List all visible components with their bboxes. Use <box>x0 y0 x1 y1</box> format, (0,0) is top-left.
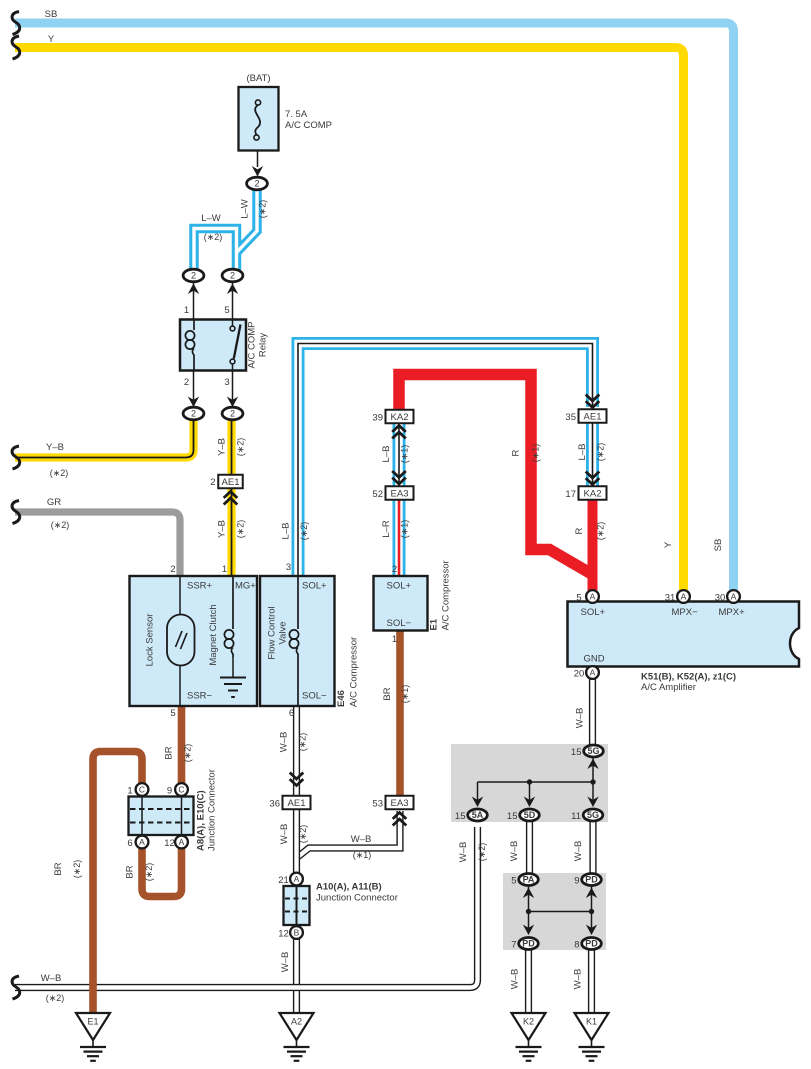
shield connector PA(5) <box>519 874 539 886</box>
svg-text:39: 39 <box>372 413 383 424</box>
svg-text:(∗2): (∗2) <box>236 520 246 539</box>
svg-text:K2: K2 <box>523 1017 534 1027</box>
svg-text:53: 53 <box>372 799 383 810</box>
svg-text:5: 5 <box>170 708 175 719</box>
junction pin B(12) <box>290 926 303 939</box>
svg-text:Y–B: Y–B <box>46 442 64 453</box>
svg-text:W–B: W–B <box>280 952 291 973</box>
svg-text:Junction Connector: Junction Connector <box>207 769 218 851</box>
svg-text:2: 2 <box>191 409 196 419</box>
svg-text:W–B: W–B <box>41 973 62 984</box>
svg-text:SOL−: SOL− <box>387 618 412 629</box>
connector KA2(39) <box>386 410 414 424</box>
svg-text:E1: E1 <box>429 618 440 630</box>
svg-text:Flow Control: Flow Control <box>267 606 278 659</box>
svg-text:5G: 5G <box>587 810 599 820</box>
break symbol Y-B <box>12 446 20 469</box>
shield connector PD(9) <box>582 874 602 886</box>
svg-text:L–W: L–W <box>201 213 221 224</box>
svg-text:(∗2): (∗2) <box>72 860 82 879</box>
svg-text:W–B: W–B <box>573 841 584 862</box>
wire from fuse to connector 2 <box>257 140 259 167</box>
svg-text:SOL+: SOL+ <box>581 607 606 618</box>
svg-text:5G: 5G <box>587 746 599 756</box>
svg-text:(∗2): (∗2) <box>298 733 308 752</box>
svg-text:52: 52 <box>372 489 383 500</box>
svg-text:1: 1 <box>392 634 397 645</box>
svg-text:A/C Compressor: A/C Compressor <box>441 560 452 630</box>
svg-text:15: 15 <box>571 747 582 758</box>
connector 2 relay pin3 <box>222 407 243 420</box>
svg-text:(∗1): (∗1) <box>400 685 410 704</box>
svg-text:W–B: W–B <box>458 842 469 863</box>
svg-text:(∗1): (∗1) <box>400 520 410 539</box>
svg-text:A8(A), E10(C): A8(A), E10(C) <box>196 790 207 851</box>
svg-text:6: 6 <box>127 838 132 849</box>
amplifier pin 31 MPX- <box>677 590 690 603</box>
svg-text:GR: GR <box>47 497 61 508</box>
svg-text:MPX−: MPX− <box>672 607 699 618</box>
svg-text:(∗2): (∗2) <box>236 438 246 457</box>
break symbol SB <box>12 12 20 35</box>
svg-text:PA: PA <box>523 875 535 885</box>
wire L-W branch to relay pin1 connector <box>0 0 1 1</box>
svg-text:K51(B), K52(A), z1(C): K51(B), K52(A), z1(C) <box>641 672 736 683</box>
connector 2 relay pin2 <box>183 407 204 420</box>
connector KA2(17) <box>579 486 607 500</box>
svg-text:AE1: AE1 <box>222 477 240 488</box>
svg-text:GND: GND <box>584 654 605 665</box>
svg-text:SOL+: SOL+ <box>387 581 412 592</box>
svg-text:A: A <box>179 837 185 847</box>
wire Y-B connector AE1 to MG+ pin1 <box>227 482 235 576</box>
svg-text:1: 1 <box>222 564 227 575</box>
wire Y-B from relay pin2 to left page break <box>15 419 194 458</box>
svg-text:17: 17 <box>565 489 576 500</box>
svg-text:(∗1): (∗1) <box>353 850 372 860</box>
svg-text:L–B: L–B <box>577 444 588 461</box>
svg-text:(∗1): (∗1) <box>531 444 541 463</box>
ground E1 <box>76 1013 110 1040</box>
svg-text:7: 7 <box>511 940 516 951</box>
wire Y (yellow) from page break to MPX- <box>15 48 684 591</box>
svg-text:15: 15 <box>455 811 466 822</box>
junction connector A8(A), E10(C) <box>129 797 194 836</box>
svg-text:PD: PD <box>585 939 598 949</box>
junction pin A(6) <box>136 836 149 849</box>
svg-text:A/C COMP: A/C COMP <box>247 322 258 369</box>
wire R thick from KA2(39) around to amplifier SOL+ <box>399 375 593 575</box>
wire BR from SSR- pin5 to junction connector C(9) <box>178 706 186 784</box>
connector 2 below fuse <box>247 177 268 190</box>
break symbol GR <box>12 501 20 524</box>
break symbol W-B <box>12 976 20 999</box>
junction pin A(21) <box>290 873 303 886</box>
amplifier pin 5 SOL+ <box>586 590 599 603</box>
svg-text:9: 9 <box>574 876 579 887</box>
svg-text:A: A <box>590 592 596 602</box>
connector 2 relay pin5 <box>222 269 243 282</box>
svg-text:W–B: W–B <box>279 732 290 753</box>
compressor assembly box Lock Sensor / Magnet Clutch <box>130 576 258 706</box>
wire W-B from 5D to PA <box>526 822 533 874</box>
svg-text:MPX+: MPX+ <box>719 607 746 618</box>
svg-text:KA2: KA2 <box>584 488 602 499</box>
junction connector A10(A), A11(B) <box>284 886 310 925</box>
svg-text:(∗2): (∗2) <box>298 825 308 844</box>
svg-text:(∗2): (∗2) <box>258 200 268 219</box>
shield connector 5G(11) <box>583 809 603 821</box>
svg-text:BR: BR <box>125 865 136 878</box>
svg-text:2: 2 <box>392 564 397 575</box>
svg-text:A/C COMP: A/C COMP <box>285 120 332 131</box>
svg-text:2: 2 <box>210 477 215 488</box>
svg-text:A: A <box>294 874 300 884</box>
svg-text:L–R: L–R <box>381 520 392 538</box>
svg-text:(∗2): (∗2) <box>299 522 309 541</box>
svg-text:9: 9 <box>167 786 172 797</box>
svg-text:7. 5A: 7. 5A <box>285 109 308 120</box>
wire L-B from KA2(39) to EA3(52) <box>393 417 406 489</box>
svg-text:2: 2 <box>230 409 235 419</box>
svg-text:2: 2 <box>230 271 235 281</box>
wire W-B from 5G(11) to PD(9) <box>589 822 596 874</box>
svg-text:C: C <box>178 785 184 795</box>
svg-text:A: A <box>681 592 687 602</box>
svg-text:(∗2): (∗2) <box>50 468 69 478</box>
wire R from KA2(17) to amplifier SOL+ <box>588 493 598 591</box>
magnet clutch coil <box>232 576 234 629</box>
connector 2 relay pin1 <box>183 269 204 282</box>
compressor solenoid box E1 <box>374 576 428 631</box>
wire BR from E1 compressor SOL- to EA3(53) <box>396 631 404 797</box>
wire W-B bottom horizontal from page break to shield 5A <box>15 827 478 988</box>
connector AE1(2) <box>218 475 243 489</box>
relay pin5 line <box>232 282 234 320</box>
svg-text:A/C Compressor: A/C Compressor <box>349 637 360 707</box>
amplifier pin 30 MPX+ <box>727 590 740 603</box>
svg-text:5: 5 <box>224 305 229 316</box>
svg-text:B: B <box>294 928 300 938</box>
shield link lines SG block <box>592 755 594 782</box>
svg-text:PD: PD <box>585 875 598 885</box>
wire Y-B relay pin3 to connector AE1 <box>227 419 235 475</box>
svg-text:(∗2): (∗2) <box>51 520 70 530</box>
svg-text:Magnet Clutch: Magnet Clutch <box>208 604 219 665</box>
junction pin A(12) <box>175 836 188 849</box>
svg-text:W–B: W–B <box>575 708 586 729</box>
svg-text:BR: BR <box>164 746 175 759</box>
svg-text:15: 15 <box>507 811 518 822</box>
svg-text:5A: 5A <box>472 810 484 820</box>
svg-text:Lock Sensor: Lock Sensor <box>145 614 156 667</box>
svg-text:Y–B: Y–B <box>217 520 228 538</box>
wire L-B pair from SOL+ pin3 up and right to connector AE1(35) <box>298 344 593 577</box>
wire W-B from SOL- pin6 down to ground A2 <box>293 706 300 1013</box>
svg-text:1: 1 <box>184 305 189 316</box>
svg-text:EA3: EA3 <box>391 488 409 499</box>
svg-text:PD: PD <box>522 939 535 949</box>
svg-text:2: 2 <box>191 271 196 281</box>
svg-text:A: A <box>590 668 596 678</box>
svg-text:W–B: W–B <box>279 824 290 845</box>
svg-text:BR: BR <box>53 862 64 875</box>
svg-text:W–B: W–B <box>509 841 520 862</box>
svg-text:5: 5 <box>511 876 516 887</box>
svg-text:Y: Y <box>48 34 55 45</box>
svg-text:(∗2): (∗2) <box>46 993 65 1003</box>
lock sensor symbol <box>167 615 195 666</box>
wire BR from junction connector C(1) to ground E1 <box>93 752 142 1014</box>
svg-text:3: 3 <box>286 562 291 573</box>
svg-text:A: A <box>731 592 737 602</box>
svg-text:Junction Connector: Junction Connector <box>316 893 398 904</box>
wire W-B from amplifier GND(20) to shield 5G <box>589 679 596 745</box>
svg-text:K1: K1 <box>586 1017 597 1027</box>
ground K2 <box>512 1013 546 1040</box>
svg-text:11: 11 <box>571 811 581 822</box>
svg-text:(∗2): (∗2) <box>144 863 154 882</box>
shield link lines PA/PD block <box>528 886 530 928</box>
svg-text:Relay: Relay <box>258 333 269 358</box>
wire L-B between AE1(35) and KA2(17) <box>586 416 599 489</box>
shield connector 5G(15) <box>584 745 604 757</box>
svg-text:(∗1): (∗1) <box>400 445 410 464</box>
svg-text:W–B: W–B <box>510 969 521 990</box>
svg-text:2: 2 <box>170 564 175 575</box>
lock sensor line <box>179 576 181 706</box>
wire GR from page break to SSR+ pin2 <box>15 512 180 576</box>
shield block SG/SA/SD (gray box) <box>451 744 608 822</box>
svg-text:E46: E46 <box>336 690 347 707</box>
svg-text:E1: E1 <box>87 1017 98 1027</box>
svg-text:(∗2): (∗2) <box>596 522 606 541</box>
svg-text:KA2: KA2 <box>391 412 409 423</box>
svg-text:SOL+: SOL+ <box>302 581 327 592</box>
junction pin C(9) <box>175 783 188 796</box>
wire L-R from EA3(52) to E1 compressor SOL+ <box>393 493 406 576</box>
svg-text:5: 5 <box>576 593 581 604</box>
svg-text:8: 8 <box>574 940 579 951</box>
shield connector PD(8) <box>582 938 602 950</box>
wire SB (sky blue) from page break to MPX+ <box>15 23 734 591</box>
svg-text:(∗2): (∗2) <box>183 744 193 763</box>
svg-text:A10(A), A11(B): A10(A), A11(B) <box>316 882 382 893</box>
magnet clutch ground <box>232 657 234 678</box>
svg-text:35: 35 <box>565 412 576 423</box>
svg-text:36: 36 <box>269 799 280 810</box>
connector AE1(35) <box>579 409 607 423</box>
wire L-W from fuse connector down/diagonal <box>237 190 258 270</box>
flow control valve box <box>260 576 335 706</box>
svg-text:L–W: L–W <box>240 199 251 219</box>
shield connector PD(7) <box>519 938 539 950</box>
svg-text:AE1: AE1 <box>288 798 306 809</box>
relay pin1 line <box>193 282 195 320</box>
svg-text:L–B: L–B <box>281 523 292 540</box>
svg-text:5D: 5D <box>524 810 536 820</box>
svg-text:R: R <box>574 527 585 534</box>
svg-text:12: 12 <box>278 929 289 940</box>
junction pin C(1) <box>136 783 149 796</box>
svg-text:30: 30 <box>715 593 726 604</box>
relay pin2 line <box>193 371 195 408</box>
ground K1 <box>575 1013 609 1040</box>
svg-text:3: 3 <box>224 377 229 388</box>
svg-text:2: 2 <box>254 179 259 189</box>
connector EA3(52) <box>386 486 414 500</box>
wire BR loop from junction connector A(12) to A(6) <box>142 848 182 897</box>
connector AE1(36) <box>283 796 311 810</box>
svg-text:Valve: Valve <box>278 621 289 644</box>
svg-text:21: 21 <box>278 875 289 886</box>
svg-text:L–B: L–B <box>381 446 392 463</box>
svg-text:1: 1 <box>127 786 132 797</box>
svg-text:MG+: MG+ <box>235 581 256 592</box>
svg-text:31: 31 <box>665 593 676 604</box>
svg-text:SB: SB <box>713 539 724 552</box>
svg-text:2: 2 <box>184 377 189 388</box>
relay switch <box>232 320 234 326</box>
svg-text:AE1: AE1 <box>584 411 602 422</box>
fuse 7.5A A/C COMP (BAT) <box>239 87 279 151</box>
relay A/C COMP Relay <box>180 320 246 371</box>
svg-text:EA3: EA3 <box>391 798 409 809</box>
ground A2 <box>280 1013 314 1040</box>
svg-text:R: R <box>511 449 522 456</box>
svg-text:12: 12 <box>164 838 175 849</box>
shield block PA/PD (gray box) <box>503 873 606 950</box>
svg-text:SSR−: SSR− <box>187 691 213 702</box>
A/C amplifier box K51(B) K52(A) z1(C) <box>568 602 800 667</box>
svg-text:C: C <box>139 785 145 795</box>
svg-text:SSR+: SSR+ <box>187 581 213 592</box>
break symbol Y <box>12 36 20 59</box>
svg-text:SB: SB <box>45 9 58 20</box>
relay coil <box>193 320 195 331</box>
wire W-B from PD(7) to ground K2 <box>525 950 532 1013</box>
svg-text:A/C Amplifier: A/C Amplifier <box>641 682 696 693</box>
shield connector 5A(15) <box>468 809 488 821</box>
svg-text:BR: BR <box>382 687 393 700</box>
flow control valve coil <box>297 576 299 629</box>
svg-text:(∗2): (∗2) <box>596 443 606 462</box>
relay pin3 line <box>232 371 234 408</box>
svg-text:20: 20 <box>574 669 585 680</box>
wire W-B from PD(8) to ground K1 <box>588 950 595 1013</box>
shield connector 5D(15) <box>520 809 540 821</box>
wire W-B branch to EA3(53) connector <box>297 811 401 858</box>
amplifier pin 20 GND <box>586 666 599 679</box>
svg-text:A: A <box>139 837 145 847</box>
svg-text:(∗2): (∗2) <box>204 232 223 242</box>
svg-text:SOL−: SOL− <box>302 691 327 702</box>
svg-text:Y: Y <box>663 541 674 548</box>
svg-text:(∗2): (∗2) <box>477 843 487 862</box>
svg-text:W–B: W–B <box>351 834 372 845</box>
svg-text:6: 6 <box>289 708 294 719</box>
connector EA3(53) <box>386 796 414 810</box>
svg-text:Y–B: Y–B <box>217 438 228 456</box>
svg-text:W–B: W–B <box>573 969 584 990</box>
svg-text:A2: A2 <box>291 1017 302 1027</box>
svg-text:(BAT): (BAT) <box>246 73 270 84</box>
